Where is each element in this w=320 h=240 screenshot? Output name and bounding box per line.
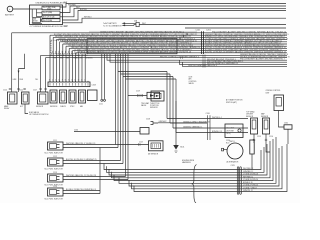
injector No.3 bbox=[45, 54, 288, 204]
injector No.4 bbox=[45, 54, 288, 204]
svg-text:No.4 FUEL INJECTOR: No.4 FUEL INJECTOR bbox=[45, 199, 64, 201]
wire to sensor connector 4 bbox=[46, 58, 47, 92]
connector under strip 1 bbox=[50, 90, 57, 103]
throttle position sensor bbox=[150, 91, 164, 109]
wire row y28 bbox=[185, 27, 286, 29]
band row 9 bbox=[76, 53, 287, 82]
svg-text:ORN 18: ORN 18 bbox=[252, 174, 258, 176]
svg-text:No.2 FUEL INJECTOR: No.2 FUEL INJECTOR bbox=[45, 169, 64, 171]
fuse No.42 bbox=[42, 11, 60, 15]
svg-text:RED/YEL 28: RED/YEL 28 bbox=[76, 189, 86, 191]
fuse No.44 bbox=[42, 15, 60, 18]
svg-text:RED/YEL 11: RED/YEL 11 bbox=[160, 56, 170, 58]
svg-text:C129: C129 bbox=[136, 90, 140, 92]
two-way unit inline box bbox=[128, 95, 147, 97]
IAC wire bbox=[74, 131, 140, 133]
svg-text:PNK 24: PNK 24 bbox=[145, 52, 151, 54]
sub row y64.4 bbox=[180, 60, 288, 64]
svg-text:No.42 (40A): No.42 (40A) bbox=[43, 11, 53, 14]
svg-text:ELD UNIT: ELD UNIT bbox=[227, 128, 235, 130]
svg-text:3: 3 bbox=[49, 79, 50, 81]
svg-text:GRN/RED 15: GRN/RED 15 bbox=[227, 63, 238, 65]
svg-text:C116: C116 bbox=[269, 136, 273, 138]
svg-text:C332: C332 bbox=[284, 123, 288, 125]
svg-text:GRN/BLK 24: GRN/BLK 24 bbox=[183, 122, 193, 124]
terminal wires with eyelets bbox=[102, 54, 105, 100]
svg-text:BRN/BLK 26: BRN/BLK 26 bbox=[243, 182, 253, 184]
dashed connector region bbox=[51, 40, 87, 54]
svg-text:WHT/BLU 9: WHT/BLU 9 bbox=[86, 189, 96, 191]
svg-text:C100: C100 bbox=[64, 26, 68, 28]
svg-text:YEL: YEL bbox=[35, 79, 38, 81]
corner run 2 bbox=[121, 54, 208, 123]
bus line D bbox=[63, 11, 287, 21]
bus line B bbox=[60, 6, 286, 13]
svg-text:C113: C113 bbox=[139, 141, 143, 143]
svg-text:4 CYLINDER FUSE/RELAY BOX SHOW: 4 CYLINDER FUSE/RELAY BOX SHOWN bbox=[30, 25, 68, 28]
svg-text:BCK UP (7.5A): BCK UP (7.5A) bbox=[43, 15, 55, 18]
svg-text:G101: G101 bbox=[180, 147, 184, 149]
PCM box bbox=[87, 39, 177, 54]
relay sub-box bbox=[33, 17, 41, 22]
svg-text:To #19 ILLUMINATION: To #19 ILLUMINATION bbox=[103, 24, 122, 27]
svg-text:RED/WHT 16: RED/WHT 16 bbox=[199, 122, 210, 124]
svg-text:(80A): (80A) bbox=[47, 8, 52, 11]
wide connector bbox=[88, 90, 98, 101]
corner run 3 bbox=[123, 54, 248, 128]
svg-text:GRN/YEL 12: GRN/YEL 12 bbox=[243, 190, 253, 192]
svg-text:GRN/RED 17: GRN/RED 17 bbox=[183, 127, 194, 129]
svg-text:GRN/RED 28: GRN/RED 28 bbox=[88, 52, 99, 54]
svg-text:CHECK: CHECK bbox=[60, 106, 67, 108]
left connector 1 bbox=[8, 92, 18, 104]
svg-text:BLU/BLK 23: BLU/BLK 23 bbox=[66, 189, 76, 191]
svg-text:ALTERNATOR: ALTERNATOR bbox=[227, 161, 239, 164]
pin comb above band bbox=[90, 31, 196, 33]
svg-text:VALVE: VALVE bbox=[189, 82, 195, 85]
under-hood fuse/relay box bbox=[30, 2, 68, 29]
wire battery to fuse box bbox=[13, 8, 30, 10]
svg-text:WHT/BLU: WHT/BLU bbox=[84, 17, 92, 19]
svg-text:C115: C115 bbox=[257, 136, 261, 138]
svg-text:ORN 17: ORN 17 bbox=[251, 188, 257, 190]
ground G101 bbox=[175, 101, 177, 145]
svg-text:SENSOR: SENSOR bbox=[150, 107, 158, 109]
svg-text:UNIT: UNIT bbox=[266, 92, 270, 94]
cruise control unit bbox=[266, 90, 293, 144]
svg-text:BRN/BLK 17: BRN/BLK 17 bbox=[98, 52, 108, 54]
svg-text:WHT: WHT bbox=[142, 23, 146, 25]
svg-text:C122: C122 bbox=[19, 90, 23, 92]
svg-text:ORN 26: ORN 26 bbox=[252, 179, 258, 181]
bundle row 2 bbox=[107, 147, 265, 172]
band row 7 bbox=[69, 48, 287, 82]
pin comb dashed box bbox=[53, 51, 85, 54]
svg-text:GRN/YEL 28: GRN/YEL 28 bbox=[181, 52, 191, 54]
svg-text:LIFT SENSOR SWITCH: LIFT SENSOR SWITCH bbox=[29, 114, 49, 116]
bus line C bbox=[60, 8, 286, 16]
arrow feed To A/T BATTERY bbox=[103, 19, 286, 27]
fuse No.43 bbox=[42, 19, 60, 22]
wire to sensor connector 3 bbox=[41, 55, 44, 92]
strip wire labels bbox=[50, 55, 93, 60]
svg-text:SERVICE: SERVICE bbox=[50, 106, 58, 108]
svg-text:WHT/BLU 20: WHT/BLU 20 bbox=[170, 56, 181, 58]
svg-text:C113: C113 bbox=[53, 172, 57, 174]
bundle row 6 bbox=[119, 137, 276, 183]
svg-text:FUSE: FUSE bbox=[33, 21, 37, 23]
injector No.1 bbox=[45, 54, 288, 204]
svg-text:BLK/YEL 3: BLK/YEL 3 bbox=[208, 65, 217, 67]
svg-text:C112: C112 bbox=[53, 156, 57, 158]
bus line A bbox=[60, 4, 286, 8]
bundle row 4 bbox=[112, 141, 271, 178]
fuse box internal wires bbox=[30, 9, 43, 23]
svg-text:SENSOR: SENSOR bbox=[246, 116, 254, 118]
band row 2 bbox=[53, 37, 287, 82]
svg-text:C310: C310 bbox=[206, 113, 210, 115]
svg-text:C128: C128 bbox=[146, 119, 150, 121]
svg-text:BLK/YEL 13: BLK/YEL 13 bbox=[205, 52, 215, 54]
inline sensor component on injector wire bbox=[116, 144, 149, 146]
svg-text:BATTERY: BATTERY bbox=[5, 13, 15, 16]
inline connector component bbox=[250, 140, 254, 154]
connector under strip 2 bbox=[60, 90, 67, 103]
svg-text:GRN/YEL 16: GRN/YEL 16 bbox=[188, 65, 198, 67]
injector No.2 bbox=[45, 54, 288, 204]
svg-text:WHT/BLU 23: WHT/BLU 23 bbox=[78, 52, 89, 54]
wire to ECT connector with arrow bbox=[19, 54, 25, 92]
bus line E bbox=[63, 18, 287, 23]
svg-text:(IN FUSE: (IN FUSE bbox=[227, 130, 235, 132]
svg-text:LT GRN 20: LT GRN 20 bbox=[243, 179, 251, 181]
svg-text:HARNESS: HARNESS bbox=[182, 161, 191, 164]
connector under strip 3 bbox=[69, 90, 76, 103]
svg-text:LT GRN 27: LT GRN 27 bbox=[243, 185, 251, 187]
sub row y60.2 bbox=[107, 54, 287, 60]
VSS plug bbox=[151, 122, 159, 125]
ECM connector strip bbox=[48, 81, 96, 87]
svg-text:BRN/BLK 1: BRN/BLK 1 bbox=[193, 127, 202, 129]
alternator bbox=[222, 141, 244, 164]
EGR valve lift sensor label bbox=[25, 104, 28, 114]
svg-text:No.43 (10A): No.43 (10A) bbox=[43, 19, 53, 22]
entry ticks on left wires bbox=[9, 88, 47, 89]
band row 5 bbox=[63, 44, 287, 82]
bundle row 3 bbox=[109, 144, 267, 175]
band row 0 bbox=[12, 33, 287, 92]
pin comb PCM box bbox=[88, 51, 176, 53]
left connector 2 bbox=[22, 92, 30, 104]
svg-text:BRN/BLK 31: BRN/BLK 31 bbox=[212, 131, 222, 133]
band row 8 bbox=[72, 51, 287, 82]
center harness verticals bbox=[63, 54, 116, 145]
svg-text:BLK/YEL: BLK/YEL bbox=[80, 9, 87, 11]
injector wires bbox=[63, 191, 100, 194]
MAP sensor assembly bbox=[261, 113, 273, 152]
bundle row 1 bbox=[104, 150, 261, 170]
svg-text:LT GRN 18: LT GRN 18 bbox=[243, 174, 251, 176]
TDC sensor assembly bbox=[246, 111, 261, 143]
svg-text:GRN/WHT: GRN/WHT bbox=[159, 121, 167, 123]
corner run 1 to sensors bbox=[118, 54, 248, 119]
svg-text:SENSOR: SENSOR bbox=[36, 106, 44, 108]
svg-text:VTEC: VTEC bbox=[70, 106, 75, 108]
svg-text:WHT/BLU 16: WHT/BLU 16 bbox=[217, 63, 228, 65]
svg-text:WHT/BLU 4: WHT/BLU 4 bbox=[212, 117, 222, 119]
svg-text:SENSOR: SENSOR bbox=[261, 116, 269, 118]
svg-text:ECT: ECT bbox=[20, 106, 23, 108]
svg-text:LT GRN 7: LT GRN 7 bbox=[243, 188, 251, 190]
svg-text:BLU/RED 21: BLU/RED 21 bbox=[124, 52, 134, 54]
svg-text:IAT SENSOR: IAT SENSOR bbox=[148, 153, 159, 156]
svg-text:BOX): BOX) bbox=[227, 133, 232, 135]
band row 3 bbox=[56, 40, 287, 82]
fifth vertical down bbox=[127, 54, 129, 96]
sub row y66.4 bbox=[183, 62, 288, 66]
svg-text:GRN/RED 12: GRN/RED 12 bbox=[243, 171, 253, 173]
band row 1 bbox=[50, 35, 287, 82]
svg-text:RELAY: RELAY bbox=[4, 107, 10, 110]
band wire labels bbox=[54, 32, 289, 54]
svg-text:BRN/BLK 4: BRN/BLK 4 bbox=[190, 56, 199, 58]
bundle row 9 bbox=[134, 144, 287, 192]
corner run 4 bbox=[126, 54, 249, 133]
bundle row 7 bbox=[129, 148, 279, 186]
svg-text:YEL/BLK 13: YEL/BLK 13 bbox=[215, 52, 225, 54]
battery bbox=[5, 6, 15, 16]
band row 4 bbox=[60, 42, 287, 82]
step jogs PCM corner bbox=[180, 33, 187, 40]
band row 6 bbox=[66, 46, 287, 82]
svg-text:VALVE: VALVE bbox=[141, 104, 147, 107]
inline connector marks bbox=[181, 55, 206, 68]
connector C101/C201 bbox=[196, 30, 212, 54]
fuse No.41 bbox=[42, 6, 60, 11]
svg-text:PNK 9: PNK 9 bbox=[193, 122, 198, 124]
wire harness band bbox=[12, 33, 287, 92]
svg-text:ORN 13: ORN 13 bbox=[252, 185, 258, 187]
svg-text:LT GRN 31: LT GRN 31 bbox=[108, 52, 117, 54]
connector C310 bbox=[206, 113, 211, 140]
svg-text:C158: C158 bbox=[92, 85, 96, 87]
svg-text:C325: C325 bbox=[231, 165, 235, 167]
bundle row 5 bbox=[114, 139, 273, 181]
left connector 3 bbox=[38, 92, 49, 104]
svg-text:C111: C111 bbox=[53, 140, 57, 142]
svg-text:7: 7 bbox=[62, 79, 63, 81]
pin numbers above strip bbox=[49, 79, 86, 81]
bundle row 8 bbox=[132, 146, 283, 189]
svg-text:C114: C114 bbox=[53, 186, 57, 188]
svg-text:WHT: WHT bbox=[64, 2, 68, 4]
svg-text:WHT/RED 11: WHT/RED 11 bbox=[243, 177, 253, 179]
connector C325 bbox=[231, 165, 242, 194]
sub row y62.2 bbox=[110, 54, 287, 62]
svg-text:8: 8 bbox=[65, 79, 66, 81]
svg-text:No.1 FUEL INJECTOR: No.1 FUEL INJECTOR bbox=[45, 153, 64, 155]
connector under strip 4 bbox=[79, 90, 86, 103]
sub rows below band bbox=[44, 54, 287, 56]
svg-text:ORN 20: ORN 20 bbox=[118, 52, 125, 54]
svg-text:SWITCH (A/T): SWITCH (A/T) bbox=[226, 101, 237, 104]
ELD unit box bbox=[45, 54, 293, 204]
svg-text:WHT B: WHT B bbox=[230, 141, 235, 143]
extra pin verticals into ECM strip bbox=[79, 54, 85, 82]
svg-text:C124: C124 bbox=[3, 90, 7, 92]
svg-text:C130: C130 bbox=[74, 130, 78, 132]
svg-text:C121: C121 bbox=[99, 104, 103, 106]
svg-text:C127: C127 bbox=[33, 90, 37, 92]
